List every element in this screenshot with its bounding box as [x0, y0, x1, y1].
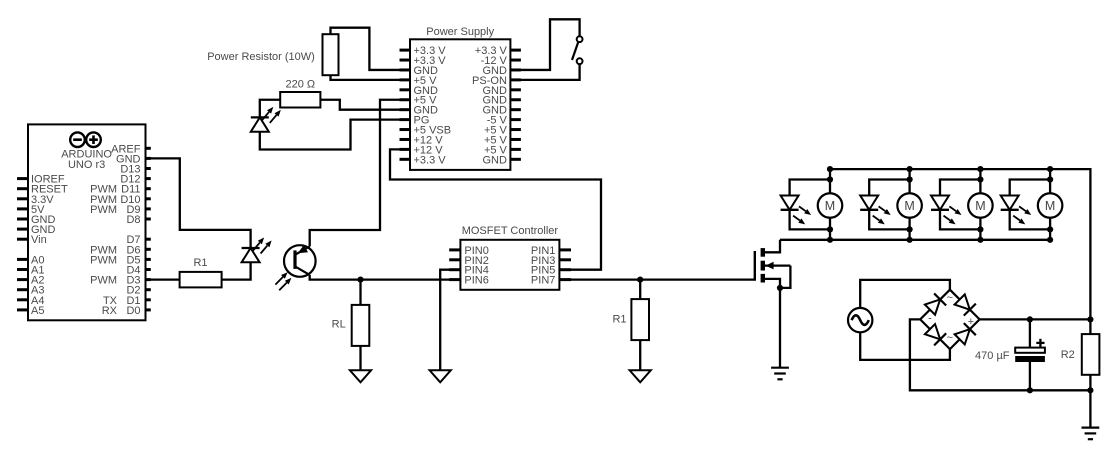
svg-text:MOSFET Controller: MOSFET Controller — [462, 225, 559, 237]
wire PS-ON to switch bottom — [510, 64, 579, 80]
motor M2 — [897, 193, 922, 218]
wire +12V top rail to R2 — [830, 169, 1090, 319]
resistor RL — [352, 305, 370, 346]
Arduino pin D9 — [90, 204, 151, 216]
Arduino pin 5V (left) — [17, 204, 45, 216]
Arduino pin A4 (left) — [17, 295, 44, 307]
Arduino title text — [61, 149, 112, 171]
wire bridge positive to cap/R2 — [980, 318, 1091, 320]
node PIN7/R1 junction — [637, 277, 643, 283]
motor M3 — [968, 193, 993, 218]
Arduino pin D4 — [126, 264, 150, 276]
node branch 3 junctions — [977, 166, 983, 243]
phototransistor Q1 — [275, 245, 315, 290]
svg-text:Vin: Vin — [31, 234, 47, 246]
svg-text:RX: RX — [102, 305, 118, 317]
wire branch 1 parallel loop — [790, 169, 830, 240]
Power Supply pin +3.3 V (left 12) — [400, 154, 447, 166]
Power Supply pin +12 V (left 11) — [400, 144, 444, 156]
Arduino pin D0 — [102, 305, 151, 317]
svg-text:M: M — [1045, 199, 1055, 213]
label R2 — [1061, 349, 1075, 361]
svg-text:M: M — [825, 199, 835, 213]
wire 220 Ω to LED PG anode top — [260, 100, 280, 118]
MOSFET Controller pin PIN7 — [531, 275, 571, 287]
Arduino pin A3 (left) — [17, 285, 44, 297]
wire cap bottom lead — [1029, 362, 1031, 390]
Arduino UNO r3 body — [28, 124, 146, 320]
label 470 µF — [975, 350, 1010, 362]
transistor Q2 N-MOSFET — [755, 248, 791, 282]
wire R1 to ground — [639, 340, 641, 370]
svg-text:220 Ω: 220 Ω — [285, 78, 315, 90]
wire branch 4 parallel loop — [1010, 169, 1050, 240]
Power Supply pin GND (right 3) — [482, 65, 520, 77]
MOSFET Controller title — [462, 225, 559, 237]
ground (RL) — [350, 370, 371, 382]
wire LED PG bottom to PG pin — [260, 120, 410, 150]
Arduino pin Vin (left) — [17, 234, 47, 246]
Power Supply pin GND (left 3) — [400, 65, 439, 77]
Power Supply pin -12 V (right 2) — [481, 55, 521, 67]
Arduino pin D12 — [120, 174, 150, 186]
Arduino pin A0 (left) — [17, 254, 44, 266]
Arduino pin GND (left) — [17, 214, 56, 226]
Arduino pin 3.3V (left) — [17, 194, 54, 206]
MOSFET Controller pin PIN5 — [531, 265, 571, 277]
wire branch 2 parallel loop — [869, 169, 909, 240]
svg-text:~: ~ — [947, 332, 953, 344]
wire power resistor bottom to +5V pin — [331, 75, 411, 80]
Arduino pin D7 — [126, 234, 150, 246]
MOSFET Controller body — [460, 240, 559, 290]
LED L1 — [781, 196, 812, 225]
label 220 Ω — [285, 78, 315, 90]
wire R2 top lead — [1089, 319, 1091, 334]
svg-text:R2: R2 — [1061, 349, 1075, 361]
Power Supply pin +5 V (left 4) — [400, 75, 438, 87]
MOSFET Controller pin PIN1 — [531, 245, 571, 257]
Arduino pin D1 — [103, 295, 151, 307]
label R1 (gate) — [612, 314, 626, 326]
svg-text:~: ~ — [947, 292, 953, 304]
svg-text:PIN6: PIN6 — [464, 275, 488, 287]
Arduino pin IOREF (left) — [17, 174, 65, 186]
Arduino pin D3 — [90, 275, 151, 287]
capacitor C1 470 µF — [1015, 339, 1045, 362]
motor M4 — [1038, 193, 1063, 218]
Arduino pin D8 — [126, 214, 150, 226]
label R1 — [193, 257, 207, 269]
label Power Resistor (10W) — [207, 51, 315, 63]
wire 220 Ω to GND pin — [320, 100, 410, 110]
svg-text:PWM: PWM — [90, 275, 117, 287]
node R2 top — [1087, 316, 1093, 322]
svg-text:GND: GND — [482, 154, 507, 166]
Power Supply pin +12 V (left 10) — [400, 134, 444, 146]
svg-text:A5: A5 — [31, 305, 44, 317]
Power Supply title — [426, 26, 494, 38]
resistor R1 (220 ohm to D3) — [180, 272, 222, 288]
Power Supply body — [410, 39, 510, 170]
svg-text:D8: D8 — [126, 214, 140, 226]
motor M1 — [818, 193, 843, 218]
Arduino pin D2 — [126, 285, 150, 297]
svg-text:UNO r3: UNO r3 — [68, 159, 105, 171]
svg-text:PWM: PWM — [90, 204, 117, 216]
AC source V1 — [848, 308, 872, 332]
svg-text:470 µF: 470 µF — [975, 350, 1010, 362]
ground (R1) — [630, 370, 651, 382]
Power Supply pin -5 V (right 8) — [487, 115, 521, 127]
Power Supply pin PG (left 8) — [400, 115, 430, 127]
node emitter/RL junction — [357, 277, 363, 283]
svg-text:M: M — [975, 199, 985, 213]
LED L3 — [931, 196, 962, 225]
Power Supply pin +5 V (right 9) — [484, 125, 521, 137]
ground (PIN4) — [430, 370, 451, 382]
Arduino pin D6 — [90, 244, 151, 256]
Power Supply pin +5 V (left 6) — [400, 95, 438, 107]
wire AC top to bridge — [860, 280, 950, 308]
wire junction to RL — [359, 280, 361, 305]
wire MOSFET body to source — [780, 266, 790, 288]
svg-text:R1: R1 — [193, 257, 207, 269]
LED L4 — [1001, 196, 1031, 225]
svg-text:M: M — [904, 199, 914, 213]
node R2 bottom — [1087, 387, 1093, 393]
MOSFET Controller pin PIN2 — [449, 255, 489, 267]
svg-text:-: - — [928, 312, 932, 324]
node branch 1 junctions — [827, 166, 833, 243]
Power Supply pin +5 VSB (left 9) — [400, 125, 452, 137]
Power Supply pin GND (right 12) — [482, 154, 520, 166]
wire bridge negative to bottom rail — [910, 319, 1091, 390]
Power Supply pin GND (left 7) — [400, 105, 439, 117]
wire MOSFET drain to motor rail — [765, 240, 780, 253]
wire PIN4 to ground — [440, 270, 460, 371]
wire bottom motor rail — [780, 239, 1050, 241]
wire AC bottom to bridge — [860, 332, 950, 360]
Power Supply pin +3.3 V (left 2) — [400, 55, 447, 67]
wire power resistor top to GND pin — [331, 28, 411, 70]
wire PIN7 to MOSFET gate — [559, 278, 754, 280]
svg-text:Power Supply: Power Supply — [426, 26, 494, 38]
Power Supply pin GND (right 6) — [482, 95, 520, 107]
node branch 2 junctions — [907, 166, 913, 243]
Arduino pin A5 (left) — [17, 305, 44, 317]
wire +5V to phototransistor collector — [310, 100, 410, 247]
earth ground (MOSFET source) — [771, 368, 789, 380]
Arduino logo — [70, 132, 101, 147]
label RL — [332, 318, 346, 330]
Power Supply pin +5 V (right 11) — [484, 144, 521, 156]
MOSFET Controller pin PIN0 — [449, 245, 489, 257]
resistor R2 — [1082, 334, 1100, 375]
wire branch 3 parallel loop — [940, 169, 980, 240]
power resistor (10W) body — [323, 34, 339, 75]
LED PG indicator — [251, 107, 281, 132]
svg-text:PWM: PWM — [90, 254, 117, 266]
svg-text:RL: RL — [332, 318, 346, 330]
wire Arduino GND to LED D1 anode-side top — [146, 158, 251, 248]
Power Supply pin GND (right 5) — [482, 85, 520, 97]
svg-text:PIN7: PIN7 — [531, 275, 555, 287]
svg-text:+: + — [968, 316, 974, 328]
LED D1 (transmitter LED) — [242, 238, 272, 263]
wire junction to R1 — [639, 280, 641, 300]
Power Supply pin GND (right 7) — [482, 105, 520, 117]
Power Supply pin PS-ON (right 4) — [472, 75, 521, 87]
Power Supply pin +3.3 V (left 1) — [400, 45, 447, 57]
svg-text:D0: D0 — [126, 305, 140, 317]
wire RL to ground — [359, 346, 361, 370]
wire +12V pin to PIN5 — [390, 149, 601, 269]
Arduino pin GND — [116, 153, 151, 165]
node branch 4 junctions — [1047, 166, 1053, 243]
wire MOSFET source down — [765, 279, 780, 368]
svg-text:R1: R1 — [612, 314, 626, 326]
wire PSU GND to switch top — [510, 19, 579, 70]
earth ground (R2) — [1082, 428, 1100, 440]
Arduino pin D5 — [90, 254, 151, 266]
resistor 220 Ω body — [280, 92, 320, 108]
wire Arduino D3 to resistor R1 — [146, 278, 180, 280]
MOSFET Controller pin PIN4 — [449, 265, 489, 277]
wire cap top lead — [1029, 319, 1031, 347]
svg-text:Power Resistor (10W): Power Resistor (10W) — [207, 51, 315, 63]
wire phototransistor emitter to PIN6 — [310, 275, 461, 280]
Arduino pin D13 — [120, 163, 150, 175]
wire R2 bottom lead — [1089, 375, 1091, 428]
Power Supply pin +5 V (right 10) — [484, 134, 521, 146]
LED L2 — [860, 196, 891, 225]
resistor R1 (gate pulldown) — [631, 299, 649, 340]
Arduino pin A2 (left) — [17, 275, 44, 287]
Arduino pin AREF — [111, 143, 151, 155]
switch SW1 (PS-ON) — [572, 36, 582, 64]
Arduino pin D11 — [90, 184, 151, 196]
node cap bottom — [1027, 387, 1033, 393]
Arduino pin RESET (left) — [17, 184, 68, 196]
Arduino pin GND (left) — [17, 224, 56, 236]
MOSFET Controller pin PIN6 — [449, 275, 489, 287]
svg-text:+3.3 V: +3.3 V — [414, 154, 447, 166]
MOSFET Controller pin PIN3 — [531, 255, 571, 267]
Power Supply pin +3.3 V (right 1) — [475, 45, 521, 57]
bridge rectifier D1-D4 — [920, 290, 979, 349]
Power Supply pin GND (left 5) — [400, 85, 439, 97]
node cap top — [1027, 316, 1033, 322]
Arduino pin D10 — [90, 194, 151, 206]
node source/body junction — [777, 285, 783, 291]
Arduino pin A1 (left) — [17, 264, 44, 276]
wire R1 to LED D1 bottom — [222, 262, 251, 279]
